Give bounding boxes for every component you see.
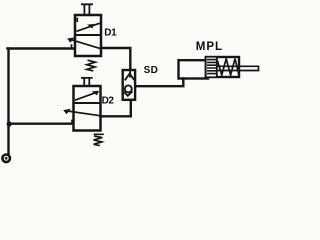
svg-text:SD: SD	[144, 65, 159, 76]
D2 bottom cell exhaust line with left arrow	[67, 111, 101, 116]
D1 return spring	[87, 60, 96, 71]
return spring inside cylinder	[217, 59, 238, 75]
D1 bottom cell exhaust line with left arrow	[71, 40, 101, 49]
piston rod	[218, 66, 259, 71]
D2 body box	[74, 86, 101, 131]
SD top seat stem	[129, 70, 131, 78]
wire: D1 right port to SD top	[101, 48, 130, 70]
D1 center divider	[75, 34, 101, 36]
SD body box	[123, 70, 135, 100]
cylinder left block	[179, 60, 209, 78]
cylinder body	[206, 57, 239, 77]
wire: D2 left branch horizontal	[9, 122, 74, 124]
D1 plugged-port T symbol	[81, 4, 93, 15]
cylinder MPL	[179, 57, 259, 79]
D1 left port tick	[71, 44, 73, 48]
D2 left port tick	[71, 120, 73, 124]
piston (hatched bar)	[207, 58, 217, 77]
svg-text:D2: D2	[102, 96, 115, 107]
shuttle valve SD	[123, 70, 135, 100]
D1 top cell flow arrow	[77, 23, 100, 31]
wire: left vertical supply bus	[7, 49, 9, 155]
D2 top cell flow arrow	[75, 92, 99, 101]
D1 top-left port tick	[76, 18, 78, 22]
SD lower seat chevron	[124, 91, 133, 96]
svg-text:MPL: MPL	[196, 40, 223, 53]
valve D2	[63, 78, 104, 146]
wire: D2 right port to SD bottom	[101, 100, 131, 116]
svg-text:D1: D1	[104, 28, 117, 39]
SD ball	[125, 85, 132, 92]
wire: top horizontal to D1 left port	[8, 47, 75, 49]
D2 plugged-port T symbol	[81, 78, 93, 86]
SD top seat chevron	[125, 74, 134, 81]
valve D1	[67, 4, 101, 71]
source node (bottom left circle)	[2, 155, 10, 163]
wire: SD output to cylinder	[135, 79, 183, 87]
D1 body box	[75, 15, 101, 56]
junction node on left bus	[7, 121, 12, 126]
D2 center divider	[74, 102, 101, 104]
D2 return spring	[94, 134, 104, 145]
